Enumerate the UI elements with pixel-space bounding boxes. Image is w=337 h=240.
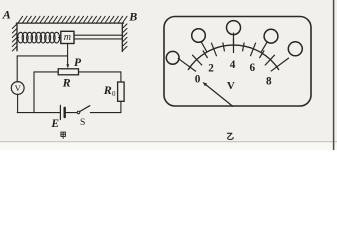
- svg-text:S: S: [80, 118, 85, 128]
- svg-text:6: 6: [250, 62, 256, 74]
- svg-text:V: V: [227, 80, 235, 92]
- svg-text:m: m: [64, 32, 71, 43]
- svg-text:B: B: [128, 9, 137, 23]
- svg-text:A: A: [2, 8, 11, 22]
- svg-text:R: R: [103, 83, 112, 97]
- svg-text:0: 0: [195, 74, 201, 86]
- svg-text:E: E: [50, 118, 59, 130]
- svg-text:P: P: [74, 57, 82, 69]
- svg-text:V: V: [15, 83, 22, 93]
- svg-text:R: R: [62, 76, 71, 90]
- svg-text:0: 0: [112, 90, 116, 98]
- svg-text:4: 4: [230, 59, 236, 71]
- svg-text:8: 8: [266, 75, 272, 87]
- svg-text:2: 2: [208, 63, 214, 75]
